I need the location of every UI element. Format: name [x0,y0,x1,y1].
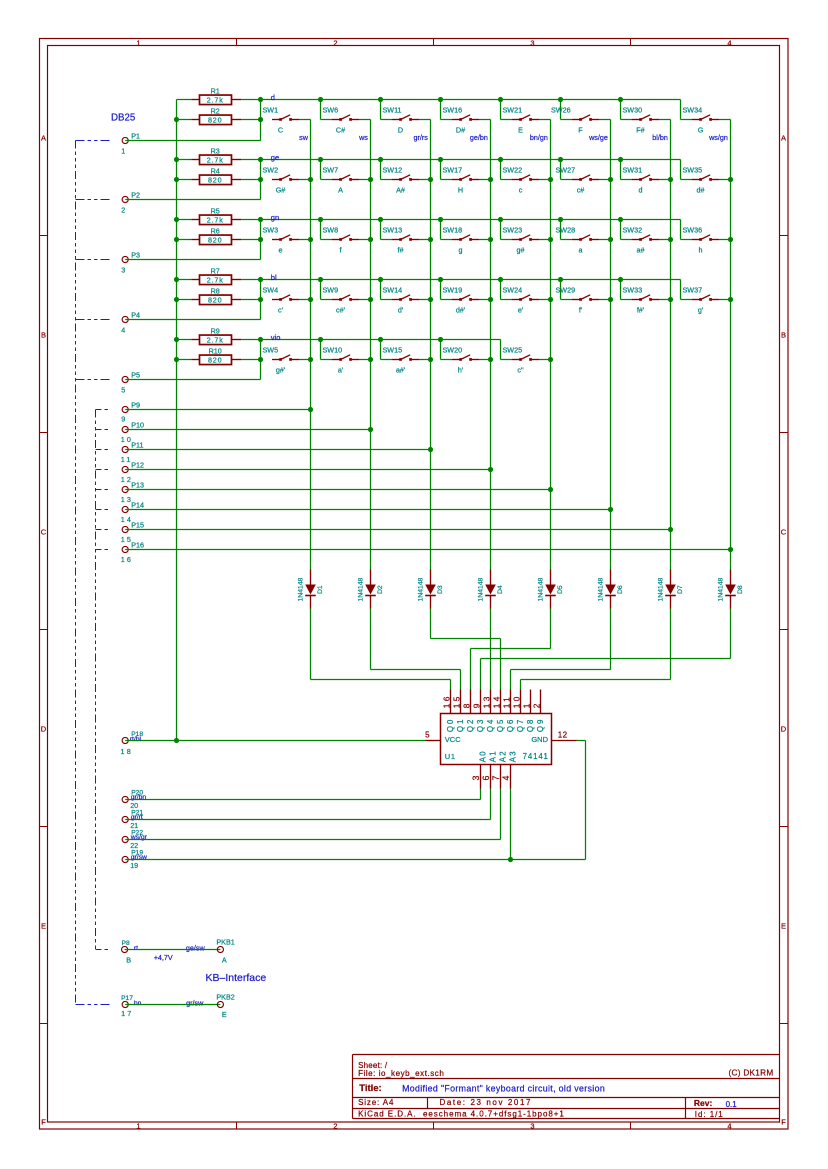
connector pin P3 [121,251,140,275]
resistor R6 (820) [177,227,261,245]
connector pin P17 [121,995,133,1018]
svg-text:P8: P8 [122,940,130,947]
svg-text:D: D [41,725,47,734]
svg-text:18: 18 [121,747,133,756]
svg-text:d: d [639,186,643,195]
switch SW1 key C [263,106,311,135]
wire P17 to PKB2 [125,1004,220,1006]
svg-text:P16: P16 [131,541,144,550]
connector pin PKB1 [216,938,234,965]
wire P16 to column 8 [125,549,730,551]
svg-text:gn: gn [271,213,279,222]
wire P13 to column 5 [125,489,550,491]
svg-text:9: 9 [121,415,125,424]
junctions column 7 vertical [668,177,673,532]
svg-text:D4: D4 [497,585,504,594]
svg-text:f#: f# [398,246,404,255]
switch SW15 key a#' [381,340,431,375]
diode D1 1N4148 [297,570,324,609]
frame zone numbers 1-4 bottom [136,1122,731,1131]
wire supply bus vertical from R1 row to P18/VCC row [176,100,178,741]
switch SW31 key d [621,160,671,195]
net label sw (column 1 wire colour) [299,133,309,142]
junctions row 5 top wire [258,337,443,342]
resistor R10 (820) [177,347,261,365]
wire P20 to U1 [125,789,480,800]
svg-text:11: 11 [501,695,511,708]
switch SW24 key e' [501,280,551,315]
U1 pin 15 Q1 [451,690,465,733]
wire column 3 vertical (switches to diode D3) [430,120,432,570]
wire P3 to row 3 [125,259,260,261]
diode D6 1N4148 [597,570,624,609]
resistor R8 (820) [177,287,261,305]
svg-text:Size: A4: Size: A4 [358,1098,394,1107]
svg-text:1N4148: 1N4148 [537,577,544,601]
net label gr/rs (column 3 wire colour) [414,133,429,142]
svg-text:D1: D1 [317,585,324,594]
wire P1 to row 1 [125,140,260,142]
svg-text:SW26: SW26 [551,106,571,115]
connector pin P20 [122,789,143,810]
junction row 3 switch line col 1 [258,237,263,242]
svg-text:14: 14 [491,694,501,708]
svg-text:PKB1: PKB1 [216,938,234,947]
svg-text:2: 2 [531,701,541,708]
net label ge [271,153,279,162]
svg-text:R7: R7 [211,267,220,276]
svg-text:A2: A2 [498,750,507,762]
title block size/date/rev row [358,1098,737,1109]
wire column 4 vertical (switches to diode D4) [490,120,492,570]
svg-text:1N4148: 1N4148 [357,577,364,601]
junction A3/GND/P19 [508,857,513,862]
svg-text:SW7: SW7 [323,166,339,175]
resistor R3 (2.7k) [177,147,261,165]
svg-text:D8: D8 [737,585,744,594]
net label d [271,93,275,102]
svg-text:SW15: SW15 [383,346,403,355]
switch SW17 key H [441,160,491,195]
svg-text:4: 4 [727,39,731,48]
svg-text:KiCad E.D.A. eeschema 4.0.7+d: KiCad E.D.A. eeschema 4.0.7+dfsg1-1bpo8+… [358,1110,565,1119]
switch SW4 key c' [263,286,311,315]
switch SW25 key c'' [501,340,551,375]
switch SW6 key C# [321,100,371,135]
U1 pin 12 GND stub [552,730,577,740]
wire diode D4 to U1 pin [490,609,492,690]
title block [353,1055,780,1119]
svg-text:ws/gn: ws/gn [708,133,728,142]
U1 pin 11 Q6 [501,690,515,733]
title block kicad/id row [358,1110,724,1119]
svg-text:Q0: Q0 [446,718,455,732]
svg-text:SW22: SW22 [503,166,523,175]
svg-text:VCC: VCC [445,735,461,744]
wire P19 to U1 [125,789,510,860]
svg-text:SW23: SW23 [503,226,523,235]
switch SW35 key d# [681,160,731,195]
svg-text:File: io_keyb_ext.sch: File: io_keyb_ext.sch [358,1069,444,1078]
svg-text:ws: ws [358,133,368,142]
svg-text:bn: bn [134,1000,142,1007]
net label ws (column 2 wire colour) [358,133,368,142]
svg-text:SW28: SW28 [556,226,576,235]
wire diode D7 to U1 pin [521,609,671,690]
svg-text:Q7: Q7 [516,718,525,732]
switch SW32 key a# [621,220,671,255]
svg-text:1N4148: 1N4148 [297,577,304,601]
svg-text:E: E [41,922,46,931]
wire column 2 vertical (switches to diode D2) [370,120,372,570]
svg-text:10: 10 [511,694,521,708]
svg-text:g#': g#' [276,366,286,375]
wire diode D3 to U1 pin [431,609,501,690]
junctions row 3 top wire [258,217,623,222]
svg-text:C: C [781,528,787,537]
connector pin P8 [122,940,132,965]
svg-text:4: 4 [501,776,511,781]
junctions row 2 top wire [258,157,623,162]
U1 pin 8 Q2 [461,690,475,733]
svg-text:SW6: SW6 [323,106,339,115]
diode D2 1N4148 [357,570,384,609]
connector pin P14 [121,501,144,524]
frame zone numbers 1-4 top [136,39,731,48]
switch SW9 key c#' [321,280,371,315]
switch SW7 key A [321,160,371,195]
svg-text:rt/bl: rt/bl [130,736,142,743]
svg-text:a': a' [338,366,344,375]
svg-text:Q4: Q4 [486,718,495,732]
connector pin P21 [122,809,143,830]
svg-text:SW10: SW10 [323,346,343,355]
svg-text:Q1: Q1 [456,718,465,732]
wire P2 to row 2 [125,199,260,201]
svg-text:Modified "Formant" keyboard ci: Modified "Formant" keyboard circuit, old… [402,1083,605,1093]
svg-text:1N4148: 1N4148 [597,577,604,601]
svg-text:P17: P17 [121,995,133,1002]
svg-text:U1: U1 [445,752,456,761]
svg-text:R9: R9 [211,327,220,336]
svg-text:R5: R5 [211,207,220,216]
text (C) DK1RM [728,1069,773,1078]
svg-text:6: 6 [481,776,491,781]
switch SW5 key g#' [263,346,311,375]
switch SW13 key f# [381,220,431,255]
connector pin P18 [121,731,144,756]
svg-text:C#: C# [336,126,345,135]
U1 pin 10 Q7 [511,690,525,733]
svg-text:B: B [781,331,786,340]
wire P4 to row 4 [125,319,260,321]
svg-text:2.7k: 2.7k [207,215,224,224]
text +4,7V [154,953,173,962]
svg-text:g: g [459,246,463,255]
svg-text:Q9: Q9 [536,718,545,732]
svg-text:3: 3 [121,266,125,275]
net label rt [134,945,138,952]
connector pin P1 [121,132,140,156]
net label ws/gn (column 8 wire colour) [708,133,728,142]
junctions column 4 vertical [488,177,493,472]
wire P22 to U1 [125,789,500,840]
svg-text:SW12: SW12 [383,166,403,175]
junction row 2 switch line col 1 [258,177,263,182]
net label gr/sw [186,998,204,1007]
svg-text:P13: P13 [131,481,144,490]
svg-text:ge/sw: ge/sw [186,944,206,953]
wire row 4 select net "bl" [261,279,681,281]
switch SW19 key d#' [441,280,491,315]
svg-text:7: 7 [491,776,501,781]
svg-text:820: 820 [208,235,222,244]
connector pin P15 [121,521,144,544]
wire column 1 vertical (switches to diode D1) [310,120,312,570]
switch SW3 key e [263,226,311,255]
svg-text:D7: D7 [677,585,684,594]
svg-text:D6: D6 [617,585,624,594]
svg-text:A: A [41,134,46,143]
svg-text:3: 3 [471,776,481,781]
svg-text:R3: R3 [211,147,220,156]
svg-text:bl: bl [271,273,277,282]
wire column 5 vertical (switches to diode D5) [550,120,552,570]
svg-text:f: f [340,246,342,255]
switch SW11 key D [381,100,431,135]
svg-text:sw: sw [299,133,309,142]
switch SW14 key d' [381,280,431,315]
svg-text:820: 820 [208,295,222,304]
U1 pin 16 Q0 [441,690,455,733]
switch SW34 key G [681,100,731,135]
svg-text:d: d [271,93,275,102]
svg-text:A0: A0 [478,750,487,762]
svg-text:vio: vio [271,333,281,342]
svg-text:1: 1 [521,701,531,708]
svg-text:E: E [781,922,786,931]
wire row 2 left vertical to P2 [260,160,262,200]
svg-text:4: 4 [121,326,125,335]
net label ge/sw [186,944,206,953]
svg-text:2: 2 [333,1122,337,1131]
svg-text:13: 13 [481,694,491,708]
resistor R4 (820) [177,167,261,185]
svg-text:1N4148: 1N4148 [717,577,724,601]
svg-text:SW17: SW17 [443,166,463,175]
connector pin P16 [121,541,144,564]
svg-text:SW21: SW21 [503,106,523,115]
svg-text:DB25: DB25 [111,113,135,124]
svg-text:820: 820 [208,175,222,184]
switch SW2 key G# [263,166,311,195]
wire P18 to U1 VCC [125,740,425,742]
svg-text:SW11: SW11 [383,106,402,115]
U1 pin 9 Q3 [471,690,485,733]
svg-text:D2: D2 [377,585,384,594]
net label gr/sw [131,854,147,861]
U1 pin 4 A3 [501,750,517,789]
svg-text:H: H [458,186,463,195]
svg-text:rt: rt [134,945,138,952]
switch SW29 key f' [556,280,611,315]
switch SW28 key a [556,220,611,255]
net label bn/gn (column 5 wire colour) [530,133,548,142]
svg-text:P12: P12 [131,461,144,470]
connector pin P9 [121,401,140,424]
svg-text:74141: 74141 [523,752,549,761]
svg-text:2: 2 [121,206,125,215]
svg-text:3: 3 [530,1122,534,1131]
op IC U1 74141 body [441,714,552,765]
wire P21 to U1 [125,789,490,820]
wire diode D1 to U1 pin [311,609,451,690]
svg-text:g': g' [698,306,704,315]
svg-text:R10: R10 [209,347,222,356]
U1 pin 13 Q4 [481,690,495,733]
switch SW12 key A# [381,160,431,195]
wire row 4 left vertical to P4 [260,280,262,320]
diode D4 1N4148 [477,570,504,609]
svg-text:R4: R4 [211,167,220,176]
svg-text:SW34: SW34 [683,106,703,115]
svg-text:(C) DK1RM: (C) DK1RM [728,1069,773,1078]
U1 pin 6 A1 [481,750,497,789]
U1 pin 14 Q5 [491,690,505,733]
svg-text:D: D [781,725,787,734]
title block title row [359,1083,605,1094]
svg-text:P15: P15 [131,521,144,530]
net label bn [134,1000,142,1007]
svg-text:F: F [781,1118,786,1127]
svg-text:5: 5 [121,386,125,395]
svg-text:bl/bn: bl/bn [652,133,668,142]
svg-text:SW24: SW24 [503,286,523,295]
svg-text:SW25: SW25 [503,346,523,355]
svg-text:SW36: SW36 [683,226,703,235]
svg-text:16: 16 [121,555,133,564]
connector pin P19 [122,849,143,870]
text DB25 [111,113,135,124]
svg-text:16: 16 [441,694,451,708]
connector pin P5 [121,371,140,395]
svg-text:SW31: SW31 [623,166,643,175]
junctions column 1 vertical [308,177,313,412]
wire column 8 vertical (switches to diode D8) [730,120,732,570]
svg-text:8: 8 [461,701,471,708]
net label rt/bl [130,736,142,743]
svg-text:F: F [41,1118,46,1127]
svg-text:2.7k: 2.7k [207,95,224,104]
junctions on supply bus [174,117,179,743]
svg-text:F: F [578,126,583,135]
net label bl/bn (column 7 wire colour) [652,133,668,142]
svg-text:P14: P14 [131,501,144,510]
diode D7 1N4148 [657,570,684,609]
svg-text:SW20: SW20 [443,346,463,355]
svg-text:0.1: 0.1 [726,1100,738,1109]
svg-text:1N4148: 1N4148 [657,577,664,601]
connector pin P4 [121,311,140,335]
svg-text:SW29: SW29 [556,286,576,295]
svg-text:c: c [519,186,523,195]
svg-text:A: A [338,186,343,195]
svg-text:Q8: Q8 [526,718,535,732]
svg-text:Q5: Q5 [496,718,505,732]
svg-text:P9: P9 [131,401,140,410]
svg-text:1N4148: 1N4148 [417,577,424,601]
svg-text:Rev:: Rev: [694,1098,713,1108]
wire row 5 left vertical to P5 [260,340,262,380]
bus dashed line left (P1-P5,P17) [76,141,111,1005]
svg-text:9: 9 [471,701,481,708]
svg-text:ge: ge [271,153,279,162]
switch SW18 key g [441,220,491,255]
svg-text:F#: F# [636,126,644,135]
svg-text:P10: P10 [131,421,144,430]
net label bl [271,273,277,282]
svg-text:h: h [699,246,703,255]
svg-text:SW3: SW3 [263,226,279,235]
U1 pin 3 A0 [471,750,487,789]
svg-text:P11: P11 [131,441,143,450]
svg-text:SW27: SW27 [556,166,576,175]
svg-text:R8: R8 [211,287,220,296]
junction row 1 switch line col 1 [258,117,263,122]
U1 pin 5 VCC stub [425,730,440,740]
svg-text:E: E [222,1010,227,1019]
switch SW26 key F [551,100,611,135]
svg-text:5: 5 [425,730,430,739]
wire P9 to column 1 [125,409,310,411]
net label ws/ge (column 6 wire colour) [588,133,608,142]
svg-text:gr/rs: gr/rs [414,133,429,142]
svg-text:SW9: SW9 [323,286,339,295]
svg-text:Title:: Title: [359,1083,382,1094]
svg-text:19: 19 [130,861,138,870]
svg-text:P2: P2 [131,191,140,200]
svg-text:PKB2: PKB2 [216,992,234,1001]
wire row 3 select net "gn" [261,219,681,221]
svg-text:Q2: Q2 [466,718,475,732]
text KB-Interface [206,972,267,984]
connector pin P10 [121,421,144,444]
switch SW30 key F# [621,100,671,135]
svg-text:4: 4 [727,1122,731,1131]
svg-text:GND: GND [531,735,548,744]
connector pin PKB2 [216,992,234,1019]
svg-text:1N4148: 1N4148 [477,577,484,601]
frame zone letters A-F right [781,134,787,1127]
svg-text:D: D [398,126,403,135]
wire column 7 vertical (switches to diode D7) [670,120,672,570]
svg-text:c#': c#' [336,306,346,315]
diode D5 1N4148 [537,570,564,609]
wire column 6 vertical (switches to diode D6) [610,120,612,570]
svg-text:e: e [279,246,283,255]
svg-text:17: 17 [121,1009,133,1018]
svg-text:SW30: SW30 [623,106,643,115]
svg-text:12: 12 [558,730,568,739]
svg-text:G#: G# [276,186,286,195]
diode D8 1N4148 [717,570,744,609]
frame zone letters A-F left [41,134,47,1127]
svg-text:D3: D3 [437,585,444,594]
wire diode D2 to U1 pin [371,609,461,690]
svg-text:c'': c'' [517,366,524,375]
wire P14 to column 6 [125,509,610,511]
svg-text:B: B [41,331,46,340]
